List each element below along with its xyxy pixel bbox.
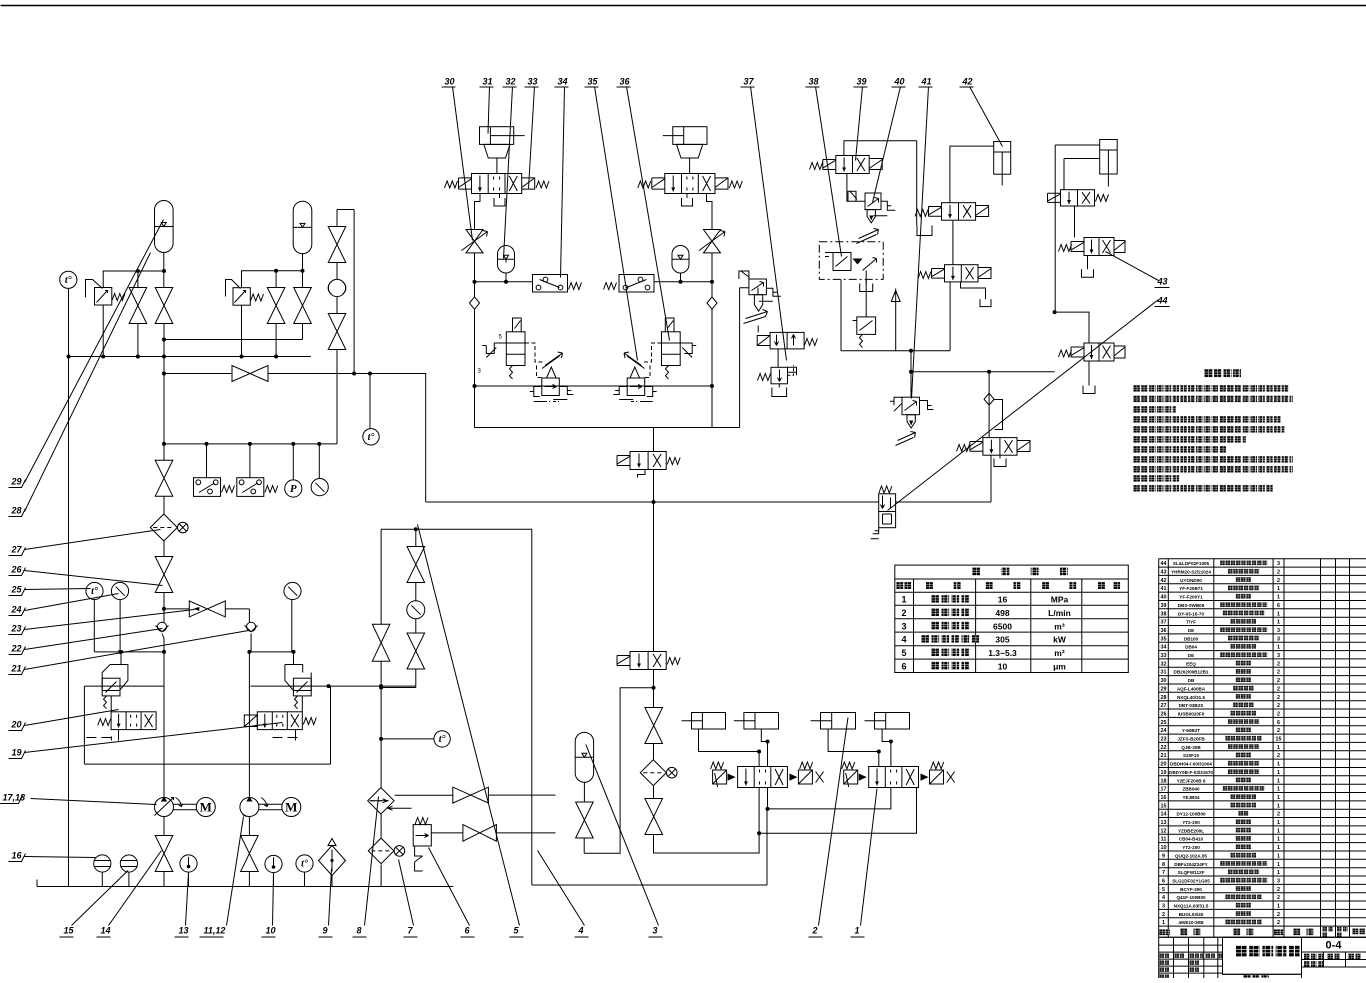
- pilot check diamond A: [470, 297, 480, 310]
- wire rail y339: [164, 339, 303, 341]
- svg-text:1: 1: [1277, 820, 1280, 826]
- svg-text:2: 2: [812, 926, 818, 936]
- svg-text:18: 18: [1161, 778, 1167, 784]
- shutoff valve V-b1: [267, 288, 285, 324]
- temperature gauge G9: [369, 374, 371, 429]
- svg-text:8: 8: [357, 926, 362, 936]
- svg-text:26: 26: [1161, 711, 1167, 717]
- svg-text:42: 42: [962, 77, 973, 87]
- throttle check 30 A: [466, 230, 483, 253]
- svg-text:2: 2: [1277, 703, 1280, 709]
- thermometer T2: [265, 855, 282, 872]
- svg-text:4WE10-30B: 4WE10-30B: [1178, 920, 1204, 925]
- wire feed A down to rail385: [474, 309, 476, 427]
- pressure transducer P: [285, 480, 302, 497]
- leader line 30: [453, 87, 473, 241]
- svg-text:9: 9: [323, 926, 328, 936]
- pressure switch 34 A: [533, 275, 568, 293]
- svg-text:19: 19: [12, 748, 22, 758]
- svg-text:1: 1: [1277, 745, 1280, 751]
- shutoff valve V-f x380: [380, 529, 382, 624]
- electric motor M1: [196, 798, 215, 817]
- svg-text:9: 9: [1162, 853, 1165, 859]
- solenoid valve 44b (W-X): [1084, 343, 1114, 361]
- svg-text:m³: m³: [1054, 621, 1065, 631]
- wire to valve 43: [1074, 206, 1076, 238]
- wire group2 top rail y270: [242, 254, 303, 288]
- wire rail y608 needle valve: [164, 609, 249, 623]
- svg-text:1: 1: [1277, 837, 1280, 843]
- svg-text:1: 1: [1277, 620, 1280, 626]
- shutoff valve V-g2: [645, 799, 663, 835]
- svg-text:1.3~5.3: 1.3~5.3: [988, 648, 1017, 658]
- wire left main vertical x68: [68, 289, 70, 887]
- tank bottom line right segment: [532, 884, 767, 886]
- leader line 10: [273, 873, 274, 926]
- manifold dash-dot enclosure: [819, 242, 883, 280]
- wire stem P gauge: [292, 444, 294, 480]
- svg-text:3: 3: [1277, 561, 1280, 567]
- leader line 44: [888, 300, 1159, 511]
- svg-text:1: 1: [1277, 586, 1280, 592]
- title block drawing name: [1236, 946, 1299, 957]
- check valve arrow up: [891, 289, 900, 351]
- tank bottom line left segment: [37, 880, 453, 887]
- svg-text:15: 15: [1276, 737, 1282, 743]
- temperature gauge 25-area t-gauge top-left: [60, 271, 77, 288]
- wire sv-a1 stems: [137, 271, 139, 357]
- leader line 26: [25, 571, 163, 586]
- valve44b tank: [1088, 361, 1090, 386]
- svg-text:498: 498: [995, 608, 1009, 618]
- leader line 39: [856, 87, 863, 161]
- filter F3 with indicator: [368, 838, 394, 864]
- spring 2/2 cartridge valve on rail501: [879, 486, 892, 493]
- filter F1 on column x163: [163, 497, 165, 515]
- wire pump columns to pumps: [164, 764, 249, 797]
- svg-text:35: 35: [1161, 636, 1167, 642]
- svg-text:16: 16: [1161, 795, 1167, 801]
- svg-text:2: 2: [1277, 920, 1280, 926]
- wire gauge6 stem: [291, 600, 293, 652]
- gate valve GV3: [463, 825, 497, 842]
- pressure switch PS1: [194, 478, 221, 497]
- svg-text:1: 1: [1277, 762, 1280, 768]
- rotation arc pump2: [261, 798, 268, 807]
- svg-text:23: 23: [11, 624, 22, 634]
- pilot check diamond B: [707, 297, 717, 310]
- leader line 38: [816, 87, 842, 257]
- wire accumulator branch: [584, 688, 653, 853]
- spec table headers: [896, 582, 911, 589]
- leader line 23: [25, 610, 195, 630]
- svg-text:43: 43: [1161, 570, 1167, 576]
- directional valve 42b (W 4/3): [942, 203, 976, 221]
- wire column x163 y323-460: [163, 324, 165, 461]
- pressure gauge G5: [111, 582, 128, 599]
- svg-text:30: 30: [1161, 678, 1167, 684]
- drawing sheet top border: [1, 5, 1366, 7]
- wire accumulator1 stem: [163, 253, 165, 288]
- svg-text:6: 6: [1277, 720, 1280, 726]
- svg-text:IUSB0020F0: IUSB0020F0: [1178, 711, 1205, 716]
- wire manifold left drop x840: [840, 279, 842, 350]
- leader line 31: [488, 87, 490, 134]
- svg-text:1: 1: [1277, 853, 1280, 859]
- svg-text:0-4: 0-4: [1326, 940, 1343, 952]
- check valve CV2: [247, 622, 256, 631]
- svg-text:41: 41: [1161, 586, 1167, 592]
- svg-text:40: 40: [1161, 595, 1167, 601]
- svg-text:1: 1: [1277, 787, 1280, 793]
- pilot-operated relief valve R-left1: [95, 288, 112, 306]
- filter F4: [640, 760, 666, 786]
- svg-text:3: 3: [1277, 878, 1280, 884]
- svg-text:1: 1: [1277, 645, 1280, 651]
- small accumulator 32 B: [672, 246, 689, 274]
- svg-text:μm: μm: [1053, 661, 1066, 671]
- throttle check 30 B: [704, 230, 721, 253]
- leader line 36: [627, 87, 670, 341]
- svg-text:6: 6: [1277, 603, 1280, 609]
- wire relief2 down: [241, 305, 243, 356]
- accumulator 2 (mid): [293, 201, 312, 253]
- wire top right rails: [1055, 145, 1100, 312]
- svg-text:m²: m²: [1054, 648, 1065, 658]
- svg-text:1: 1: [1162, 920, 1165, 926]
- svg-text:1: 1: [901, 595, 906, 605]
- temperature gauge G-t2: [86, 582, 103, 599]
- wire feed B to rail281: [711, 253, 713, 297]
- solenoid valve SV42-1: [111, 712, 156, 730]
- svg-text:S20F10: S20F10: [1183, 753, 1200, 758]
- svg-text:34: 34: [1161, 645, 1167, 651]
- wire x653 to rail501: [638, 470, 654, 503]
- svg-text:P: P: [290, 483, 297, 495]
- svg-text:14: 14: [1161, 812, 1167, 818]
- sequence valve column x739: [740, 288, 749, 428]
- shutoff valve V-c2: [328, 314, 346, 350]
- leader line 32: [504, 87, 513, 259]
- svg-text:4: 4: [578, 926, 584, 936]
- svg-text:1: 1: [1277, 870, 1280, 876]
- svg-text:36: 36: [1161, 628, 1167, 634]
- leader line 35: [595, 87, 638, 361]
- svg-text:DBDH04-/-00/31004: DBDH04-/-00/31004: [1170, 762, 1212, 767]
- wire rail y140 and x916 drop: [844, 141, 917, 226]
- svg-text:10: 10: [1161, 845, 1167, 851]
- svg-text:1: 1: [1277, 828, 1280, 834]
- wire rail y385 across modules: [475, 385, 713, 387]
- wire stem gauge4: [318, 444, 320, 479]
- leader line 8: [365, 797, 379, 926]
- svg-text:14: 14: [101, 926, 111, 936]
- throttle arrow B: [624, 352, 645, 369]
- technical requirements body: [1134, 385, 1289, 392]
- svg-text:21: 21: [11, 664, 22, 674]
- pilot-operated relief valve R-left2: [233, 288, 250, 306]
- variable pump P2: [240, 798, 259, 817]
- cylinder 2a: [692, 713, 726, 730]
- svg-text:22: 22: [1161, 745, 1167, 751]
- spec table frame: [895, 565, 1129, 672]
- enclosure bottom line: [84, 763, 330, 765]
- wire checkvalves to y651 rail: [162, 634, 251, 652]
- cylinder 42 (vertical): [994, 142, 1011, 175]
- shutoff valve V-b2: [294, 288, 312, 324]
- shutoff valve V-d2: [155, 557, 173, 593]
- accumulator 4: [575, 732, 593, 782]
- svg-text:4: 4: [1162, 895, 1165, 901]
- svg-text:17: 17: [1161, 787, 1167, 793]
- svg-text:23: 23: [1161, 737, 1167, 743]
- gate valve GV2: [453, 787, 489, 803]
- wire rail y350: [841, 350, 950, 352]
- wire valve2 lower ports: [759, 788, 767, 834]
- svg-text:13: 13: [1161, 820, 1167, 826]
- svg-text:3: 3: [1162, 904, 1165, 910]
- svg-text:2: 2: [1277, 728, 1280, 734]
- leader line 28: [25, 253, 151, 512]
- svg-text:29: 29: [1161, 686, 1167, 692]
- wire valve33r tank jog: [961, 282, 986, 299]
- wire sv-b1 stems: [275, 271, 277, 357]
- svg-text:3: 3: [901, 621, 906, 631]
- wire column to needle valve rail: [163, 593, 165, 623]
- svg-text:QUQ2-102A.05: QUQ2-102A.05: [1175, 853, 1207, 858]
- svg-text:6500: 6500: [993, 621, 1012, 631]
- leader line 5: [418, 525, 520, 926]
- leader line 11,12: [227, 817, 244, 926]
- svg-text:26: 26: [11, 565, 23, 575]
- check valve CV1: [157, 622, 166, 631]
- leader line 14: [109, 851, 162, 926]
- suction shutoff valve V-p1: [155, 836, 173, 872]
- wire feed B down: [711, 309, 713, 427]
- solenoid valve 43 (W-X): [1084, 238, 1114, 256]
- svg-text:40: 40: [894, 77, 905, 87]
- svg-text:20: 20: [11, 720, 22, 730]
- svg-text:t°: t°: [439, 734, 446, 745]
- cartridge valve B: [630, 367, 640, 378]
- svg-text:24: 24: [11, 605, 22, 615]
- svg-text:NXQ11A.63/31.5: NXQ11A.63/31.5: [1174, 904, 1209, 909]
- wire relief1 down: [102, 305, 104, 357]
- wire rail y808: [768, 788, 891, 809]
- svg-text:Y2EJF200B 6: Y2EJF200B 6: [1177, 778, 1206, 783]
- svg-text:2: 2: [1277, 711, 1280, 717]
- svg-text:DB04: DB04: [1185, 645, 1197, 650]
- svg-text:DY-03-16-70: DY-03-16-70: [1178, 611, 1204, 616]
- spec table title: [972, 567, 1067, 575]
- filter F2 with arrows: [368, 788, 394, 814]
- wire long rail y501: [426, 501, 991, 503]
- wire x336 down to rail y443: [336, 350, 338, 444]
- leader line 15: [72, 871, 129, 926]
- svg-text:AQF-L400BA: AQF-L400BA: [1177, 686, 1206, 691]
- svg-text:20: 20: [1161, 762, 1167, 768]
- svg-text:35: 35: [588, 77, 599, 87]
- svg-text:6: 6: [901, 661, 906, 671]
- wire module2 internals: [249, 652, 302, 764]
- wire chain to subsystem2: [654, 833, 760, 853]
- pressure gauge G4: [311, 479, 328, 496]
- svg-text:3: 3: [653, 926, 658, 936]
- svg-text:DY12-100B00: DY12-100B00: [1176, 812, 1206, 817]
- title block sheet cells: [1304, 954, 1323, 960]
- wire rail y281 A: [475, 281, 533, 283]
- title block small rows: [1160, 953, 1170, 958]
- wire rail y373 with gate valve: [164, 373, 354, 375]
- wire module1 internals: [86, 652, 164, 764]
- svg-text:t°: t°: [301, 859, 308, 870]
- svg-text:YEJB04: YEJB04: [1182, 795, 1200, 800]
- svg-text:16: 16: [998, 595, 1008, 605]
- accumulator 28 (left): [155, 201, 174, 253]
- svg-text:5: 5: [901, 648, 906, 658]
- svg-text:1: 1: [855, 926, 860, 936]
- wire check column top rail y528: [381, 528, 532, 530]
- shutoff valve V-c1: [328, 227, 346, 263]
- cartridge B side brackets: [613, 387, 657, 402]
- svg-text:DBDY0B-F-03/31570: DBDY0B-F-03/31570: [1169, 770, 1213, 775]
- svg-text:CB04-B410: CB04-B410: [1179, 837, 1204, 842]
- svg-text:1: 1: [1277, 904, 1280, 910]
- wire chain2: [653, 786, 655, 799]
- svg-text:Q41F-100B00: Q41F-100B00: [1176, 895, 1206, 900]
- leader line 42: [970, 87, 1003, 147]
- wire stems pressure switch 2: [249, 444, 251, 478]
- manifold tank: [865, 271, 867, 284]
- wire valve33r drop: [949, 282, 951, 351]
- svg-text:ZBB040: ZBB040: [1182, 787, 1200, 792]
- pilot relief valve PR2: [285, 665, 311, 691]
- leader line 43: [1106, 252, 1159, 281]
- svg-text:5: 5: [1162, 887, 1165, 893]
- valve43 tank: [1087, 256, 1089, 270]
- shutoff valve V-e1 x415: [415, 529, 417, 546]
- parts list table frame: [1159, 559, 1366, 938]
- wire subsystem drop x653: [653, 428, 655, 452]
- svg-text:36: 36: [620, 77, 631, 87]
- svg-text:DB202/00B12B1: DB202/00B12B1: [1174, 670, 1209, 675]
- svg-text:2: 2: [1277, 912, 1280, 918]
- svg-text:25: 25: [1161, 720, 1167, 726]
- svg-text:YF-F200Y1: YF-F200Y1: [1179, 595, 1203, 600]
- shutoff valve V-acc4: [576, 802, 594, 838]
- svg-text:32: 32: [1161, 661, 1167, 667]
- shutoff valve V-a1: [129, 288, 147, 324]
- leader line 1: [861, 789, 878, 926]
- svg-text:11: 11: [1161, 837, 1167, 843]
- shutoff valve V-d1 on column: [155, 460, 173, 496]
- svg-text:1: 1: [1277, 803, 1280, 809]
- pressure gauge G6: [284, 582, 301, 599]
- svg-text:1: 1: [1277, 862, 1280, 868]
- svg-text:7: 7: [1162, 870, 1165, 876]
- rotation arc pump1: [176, 798, 183, 807]
- reducing module 35 A pilot valve: [506, 332, 525, 366]
- shaft pump2-motor2: [259, 804, 283, 810]
- svg-text:16: 16: [12, 851, 23, 861]
- wire rail y651 left: [94, 651, 164, 653]
- cylinder mount A: [484, 144, 510, 173]
- directional valve 33 A (4/3): [472, 174, 522, 194]
- svg-text:19: 19: [1161, 770, 1167, 776]
- svg-text:15: 15: [1161, 803, 1167, 809]
- solenoid valve 32b (3/2): [630, 652, 666, 670]
- svg-text:QJB-30B: QJB-30B: [1181, 745, 1201, 750]
- svg-text:Y-60B2T: Y-60B2T: [1182, 728, 1200, 733]
- svg-text:1: 1: [1277, 770, 1280, 776]
- svg-text:MPa: MPa: [1051, 595, 1069, 605]
- svg-text:28: 28: [11, 506, 22, 516]
- leader line 19: [25, 723, 283, 753]
- svg-text:6: 6: [1162, 878, 1165, 884]
- solenoid valve 32a (3/2): [630, 452, 666, 470]
- svg-text:M: M: [285, 800, 297, 815]
- svg-text:3: 3: [1277, 628, 1280, 634]
- svg-text:1: 1: [1277, 778, 1280, 784]
- wire valve V6 to gate valve GV3: [431, 832, 463, 834]
- svg-text:kW: kW: [1053, 635, 1067, 645]
- svg-text:43: 43: [1157, 277, 1168, 287]
- svg-text:2: 2: [1277, 686, 1280, 692]
- cartridge valve A: [547, 367, 557, 378]
- pilot check diamond right: [984, 372, 1002, 438]
- leader line 9: [329, 869, 332, 926]
- leader line 3: [586, 745, 659, 926]
- svg-text:27: 27: [1161, 703, 1167, 709]
- wire x531 drop to tank: [531, 529, 533, 885]
- directional valve 33 B (4/3): [665, 174, 715, 194]
- title block frame: [1159, 937, 1366, 978]
- wire x653 below valve: [653, 670, 655, 708]
- svg-text:DB: DB: [1188, 678, 1195, 683]
- cylinder 31 (subsystem A): [480, 127, 514, 145]
- solenoid cone 41: [907, 415, 915, 428]
- solenoid valve 44 (W 3/2): [983, 438, 1017, 456]
- svg-text:t°: t°: [65, 275, 72, 286]
- wire pilot relief1 pilot line: [120, 652, 122, 665]
- svg-text:DBT-03B2S: DBT-03B2S: [1179, 703, 1204, 708]
- svg-text:32: 32: [506, 77, 516, 87]
- svg-text:29: 29: [11, 477, 22, 487]
- svg-text:DE: DE: [1188, 628, 1194, 633]
- wire feed A to rail281: [474, 253, 476, 297]
- svg-text:SLQFW112F: SLQFW112F: [1178, 870, 1205, 875]
- svg-text:305: 305: [995, 635, 1009, 645]
- wire rail y373 to corner x425: [354, 374, 426, 503]
- svg-text:3: 3: [1277, 636, 1280, 642]
- svg-text:2: 2: [1162, 912, 1165, 918]
- reducing valve 41: [890, 397, 902, 411]
- svg-text:DBFx204Z24FY: DBFx204Z24FY: [1174, 862, 1207, 867]
- leader line 40: [873, 87, 901, 203]
- svg-text:10: 10: [266, 926, 276, 936]
- title block bottom drawing type: [1244, 975, 1269, 982]
- svg-text:BCYF-300: BCYF-300: [1180, 887, 1202, 892]
- cylinder 1b: [875, 713, 910, 730]
- svg-text:44: 44: [1161, 561, 1167, 567]
- svg-text:30: 30: [445, 77, 455, 87]
- level gauge LG2: [120, 855, 137, 872]
- wire x1054 junction to valve 44b: [1053, 310, 1057, 314]
- leader line 29: [25, 220, 164, 483]
- wire valve42b to cylinder 42: [950, 146, 994, 203]
- wire chain: [653, 744, 655, 760]
- pilot dashes A: [525, 343, 543, 378]
